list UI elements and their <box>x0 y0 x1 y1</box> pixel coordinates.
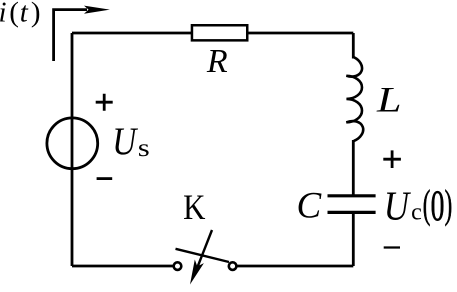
svg-text:C: C <box>297 185 323 226</box>
switch closing arrow shaft <box>198 230 213 267</box>
switch K right contact <box>229 262 237 270</box>
inductor L <box>346 57 363 141</box>
plus sign at source <box>96 94 113 111</box>
wire right middle segment <box>352 140 355 195</box>
svg-text:0: 0 <box>431 183 445 230</box>
svg-text:K: K <box>183 187 205 227</box>
svg-text:U: U <box>384 183 411 229</box>
wire right top segment <box>352 33 355 59</box>
svg-text:U: U <box>112 120 138 163</box>
svg-text:): ) <box>445 181 453 226</box>
capacitor C bottom plate <box>328 211 376 214</box>
svg-text:c: c <box>411 200 422 226</box>
wire bottom right segment <box>237 265 353 268</box>
wire bottom left segment <box>72 265 173 268</box>
switch K blade <box>176 249 230 262</box>
wire top <box>72 32 353 35</box>
svg-text:L: L <box>376 80 402 120</box>
capacitor C top plate <box>328 194 376 197</box>
svg-text:s: s <box>138 135 150 162</box>
current direction arrow line <box>54 10 87 61</box>
plus sign at capacitor <box>383 150 401 168</box>
switch closing arrow head <box>190 260 204 285</box>
resistor R <box>192 25 247 40</box>
switch K left contact <box>174 262 182 270</box>
voltage source Us circle <box>47 118 98 169</box>
minus sign at capacitor <box>384 246 400 248</box>
wire right bottom segment <box>352 213 355 266</box>
svg-text:i(t): i(t) <box>0 0 41 29</box>
wire left <box>71 33 74 266</box>
current direction arrow head <box>84 6 110 14</box>
svg-text:(: ( <box>423 181 431 226</box>
minus sign at source <box>97 177 113 180</box>
svg-text:R: R <box>206 43 228 80</box>
